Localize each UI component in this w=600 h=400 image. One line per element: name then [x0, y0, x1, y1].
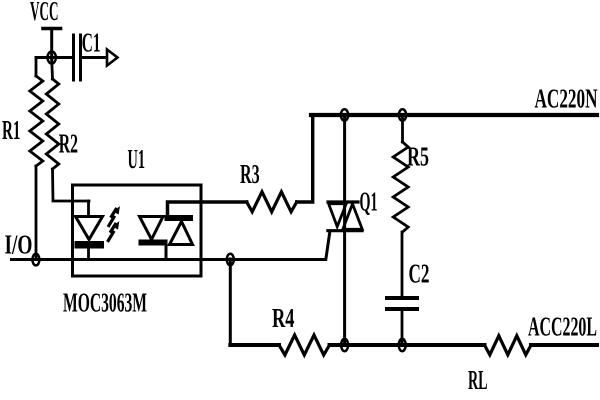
- wire bottom rail left: [230, 343, 279, 347]
- wire R5 top lead: [401, 115, 404, 142]
- resistor R4: [279, 335, 330, 355]
- I/O terminal circle: [32, 254, 39, 266]
- svg-text:R5: R5: [407, 142, 429, 172]
- svg-text:R1: R1: [2, 115, 21, 145]
- svg-text:RL: RL: [468, 365, 488, 395]
- triac Q1 top bar: [328, 200, 358, 203]
- resistor R5: [393, 142, 408, 232]
- wire I/O line to triac gate: [12, 232, 330, 260]
- svg-text:MOC3063M: MOC3063M: [63, 288, 147, 318]
- wire bottom rail middle: [330, 343, 485, 347]
- junction node at VCC: [48, 52, 56, 64]
- resistor RL: [485, 336, 532, 355]
- svg-text:I/O: I/O: [5, 230, 33, 260]
- resistor R2: [46, 79, 59, 169]
- AC220N rail: [311, 113, 597, 117]
- phototriac bottom connector: [165, 246, 168, 260]
- capacitor C1 right plate: [79, 35, 82, 80]
- svg-text:R3: R3: [240, 159, 260, 189]
- light arrow 2: [108, 221, 119, 240]
- capacitor C2 bottom plate: [387, 307, 417, 311]
- LED lead bottom: [87, 248, 90, 259]
- LED triangle: [76, 217, 103, 240]
- capacitor C1 left plate: [72, 35, 75, 80]
- junction node rail/C2 bottom: [399, 339, 406, 351]
- junction node rail/Q1 bottom: [341, 339, 348, 351]
- capacitor C2 top plate: [387, 296, 417, 300]
- op-to-coupler U1 box: [73, 185, 202, 276]
- triac Q1 right triangle: [343, 204, 363, 229]
- arrow terminal after C1: [107, 50, 118, 66]
- wire C2 to bottom rail: [401, 309, 404, 345]
- phototriac bottom bar: [139, 240, 168, 246]
- svg-text:R2: R2: [59, 129, 78, 159]
- wire bottom rail right: [531, 343, 597, 347]
- svg-text:ACC220L: ACC220L: [528, 312, 597, 342]
- resistor R1: [30, 76, 43, 166]
- LED lead top: [87, 201, 90, 218]
- svg-text:C1: C1: [82, 28, 101, 58]
- svg-text:C2: C2: [409, 259, 430, 289]
- light arrow 1: [109, 206, 120, 225]
- junction node rail/Q1: [341, 109, 348, 120]
- svg-text:Q1: Q1: [360, 187, 378, 217]
- wire C1 to arrow: [81, 56, 108, 59]
- wire R2 bottom to U1 pin (anode): [53, 169, 90, 201]
- svg-text:U1: U1: [128, 144, 146, 174]
- svg-text:R4: R4: [272, 303, 295, 333]
- VCC power bar: [43, 27, 61, 31]
- resistor R3: [247, 192, 297, 212]
- wire R1 bottom to I/O terminal: [35, 166, 38, 258]
- phototriac top bar: [165, 215, 194, 221]
- wire junction to C1 left plate: [36, 56, 74, 59]
- triac Q1 left triangle: [329, 204, 347, 227]
- phototriac right triangle: [170, 222, 193, 245]
- wire junction to R2 top: [50, 59, 54, 79]
- junction node on I/O line: [227, 254, 234, 266]
- wire phototriac to R3: [168, 202, 247, 216]
- wire R5 to C2: [401, 232, 404, 296]
- wire VCC bar to junction: [50, 29, 53, 60]
- wire R3 to AC220N rail: [297, 115, 313, 202]
- wire junction down to R4 line: [229, 259, 232, 345]
- LED cathode bar: [75, 241, 105, 249]
- phototriac left triangle: [140, 217, 164, 240]
- triac Q1 bottom bar: [328, 229, 362, 232]
- svg-text:AC220N: AC220N: [535, 84, 598, 114]
- wire Q1 vertical: [343, 115, 346, 345]
- svg-text:VCC: VCC: [30, 0, 59, 26]
- junction node rail/R5: [399, 109, 406, 120]
- wire junction to R1 top: [35, 58, 38, 77]
